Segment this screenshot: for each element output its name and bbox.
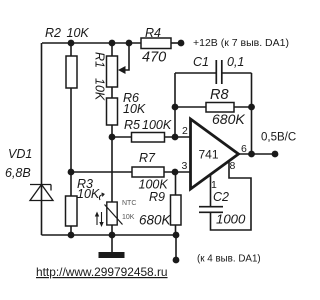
wire C1 top left (175, 72, 216, 74)
wire left vertical (41, 43, 43, 235)
zener diode VD1 (5, 147, 53, 201)
wire top rail left (42, 42, 141, 44)
resistor R9 (139, 190, 181, 228)
capacitor C2 (199, 190, 246, 227)
svg-text:R2: R2 (45, 26, 61, 40)
wire top rail right of R4 (171, 42, 181, 44)
svg-text:741: 741 (199, 148, 219, 162)
NTC thermistor RK (95, 193, 137, 227)
svg-text:0,1: 0,1 (227, 55, 244, 69)
wire pin1 to C2 top (210, 174, 212, 207)
svg-text:100K: 100K (142, 118, 172, 132)
wire ground stub (111, 235, 113, 252)
terminal output (272, 151, 279, 158)
svg-text:6: 6 (241, 143, 247, 155)
wire R3 branch (70, 172, 72, 235)
wire bottom terminal stub (175, 235, 177, 260)
op-amp DA1 741 (182, 119, 248, 191)
node bottom R9 (173, 232, 180, 239)
resistor R2 (45, 26, 89, 88)
ground (99, 252, 125, 258)
node R2-R3 divider (68, 169, 75, 176)
node R5-R6-NTC divider (109, 134, 116, 141)
wire R1 branch (111, 43, 113, 137)
node output feedback (248, 151, 255, 158)
svg-text:10K: 10K (122, 214, 135, 221)
resistor R5 (124, 118, 172, 142)
wire feedback left vertical (174, 73, 176, 137)
wire bottom rail (42, 234, 177, 236)
svg-text:R1: R1 (93, 52, 107, 68)
wire R1 wiper (125, 43, 129, 70)
terminal +12V (178, 40, 185, 47)
node bottom NTC (109, 232, 116, 239)
svg-text:VD1: VD1 (8, 147, 32, 161)
wire R9 branch (175, 172, 177, 235)
svg-text:R4: R4 (145, 26, 161, 40)
svg-text:C1: C1 (193, 55, 209, 69)
wire feedback right vertical (251, 73, 253, 154)
node top wiper (126, 40, 133, 47)
svg-text:R9: R9 (149, 190, 165, 204)
svg-text:680K: 680K (212, 111, 245, 127)
resistor R3 (66, 177, 100, 226)
wire node137 to pin2 (112, 136, 190, 138)
potentiometer R1 (93, 52, 126, 101)
node top R2 (68, 40, 75, 47)
node R8 left (172, 104, 179, 111)
svg-text:R7: R7 (139, 151, 156, 165)
resistor R7 (132, 151, 168, 192)
wire node172 to pin3 (71, 171, 190, 173)
svg-text:NTC: NTC (122, 200, 136, 207)
svg-text:(к 4 выв. DA1): (к 4 выв. DA1) (197, 254, 261, 265)
svg-text:8: 8 (230, 160, 236, 172)
terminal ground pin4 (173, 257, 180, 264)
svg-text:10K: 10K (77, 187, 100, 201)
node R8 right (248, 104, 255, 111)
svg-text:10K: 10K (93, 78, 107, 101)
svg-text:R5: R5 (124, 118, 140, 132)
svg-text:10K: 10K (67, 26, 90, 40)
node pin3 (172, 169, 179, 176)
wire R2 branch (70, 43, 72, 172)
svg-text:R8: R8 (210, 87, 229, 103)
svg-text:C2: C2 (213, 190, 229, 204)
wire R8 row (175, 106, 252, 108)
svg-text:+12В (к 7 выв. DA1): +12В (к 7 выв. DA1) (193, 37, 289, 49)
resistor R6 (107, 91, 146, 125)
svg-text:6,8В: 6,8В (5, 166, 31, 180)
svg-text:http://www.299792458.ru: http://www.299792458.ru (36, 265, 168, 279)
capacitor C1 (193, 55, 244, 84)
wire C1 top right (222, 72, 252, 74)
node top R1 (109, 40, 116, 47)
resistor R4 (141, 26, 171, 66)
svg-text:3: 3 (182, 160, 188, 172)
svg-text:680K: 680K (139, 213, 172, 228)
svg-text:470: 470 (142, 50, 166, 66)
wire pin8 to C2 bottom (211, 160, 252, 230)
svg-text:10K: 10K (123, 102, 146, 116)
wire NTC branch (111, 137, 113, 235)
svg-text:1: 1 (211, 179, 217, 191)
node pin2 (172, 134, 179, 141)
svg-text:0,5В/С: 0,5В/С (261, 132, 296, 144)
svg-text:2: 2 (182, 125, 188, 137)
resistor R8 (206, 87, 245, 127)
node bottom R3 (68, 232, 75, 239)
wire output (238, 153, 275, 155)
svg-text:1000: 1000 (216, 212, 246, 227)
